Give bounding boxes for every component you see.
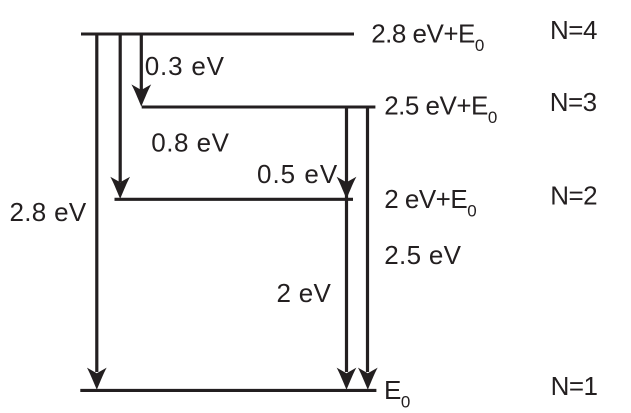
svg-text:2 eV+E0: 2 eV+E0 <box>384 184 476 221</box>
svg-text:N=2: N=2 <box>550 180 597 210</box>
svg-text:E0: E0 <box>384 375 410 412</box>
svg-text:2.5 eV+E0: 2.5 eV+E0 <box>384 91 497 128</box>
svg-text:2.5 eV: 2.5 eV <box>384 240 461 270</box>
energy level N=1 line <box>80 389 376 392</box>
svg-text:N=4: N=4 <box>550 15 597 45</box>
2.8 eV transition arrow shaft (N=4 to N=1) <box>95 34 98 372</box>
2.5 eV arrowhead <box>358 368 378 390</box>
svg-text:2.8 eV+E0: 2.8 eV+E0 <box>371 19 484 56</box>
energy level N=2 line <box>115 198 354 201</box>
svg-text:0.3 eV: 0.3 eV <box>145 51 225 81</box>
0.5 eV arrowhead (at N=2) <box>337 177 357 199</box>
svg-text:2 eV: 2 eV <box>277 278 332 308</box>
2.8 eV arrowhead <box>87 368 107 390</box>
0.8 eV transition arrow shaft (N=4 to N=2) <box>119 34 122 182</box>
svg-text:0.8 eV: 0.8 eV <box>151 128 229 158</box>
2 eV arrowhead (at N=1) <box>337 368 357 390</box>
2.5 eV transition arrow shaft (N=3 to N=1) <box>366 107 369 372</box>
0.3 eV arrowhead <box>131 84 151 106</box>
0.5 eV + 2 eV transition arrow shaft (N=3 through N=2 to N=1) <box>345 107 348 372</box>
energy level N=3 line <box>142 105 376 108</box>
svg-text:N=1: N=1 <box>551 371 598 401</box>
svg-text:N=3: N=3 <box>550 87 597 117</box>
energy level N=4 line <box>81 32 354 35</box>
0.8 eV arrowhead <box>110 177 130 199</box>
0.3 eV transition arrow shaft (N=4 to N=3) <box>140 34 143 90</box>
svg-text:0.5 eV: 0.5 eV <box>257 159 338 189</box>
svg-text:2.8 eV: 2.8 eV <box>10 197 87 227</box>
